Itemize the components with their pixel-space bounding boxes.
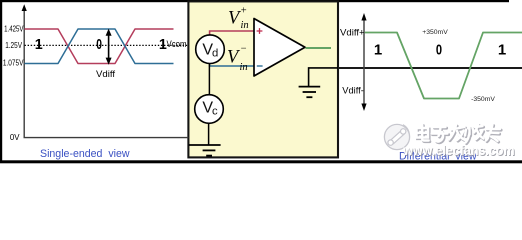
right zero axis line xyxy=(338,67,522,69)
svg-text:in: in xyxy=(240,62,248,73)
frame bottom rule xyxy=(0,160,522,163)
left axis arrowhead xyxy=(22,4,27,11)
blue wire to - input xyxy=(210,63,254,66)
svg-text:-350mV: -350mV xyxy=(471,96,495,103)
green output wire xyxy=(306,47,332,49)
source Vd xyxy=(196,35,225,64)
watermark logo disc xyxy=(384,124,409,149)
svg-text:−: − xyxy=(241,44,247,55)
svg-text:1.25V: 1.25V xyxy=(5,41,22,50)
svg-text:0: 0 xyxy=(96,36,102,52)
source Vc xyxy=(195,95,224,124)
right vertical double arrow axis xyxy=(363,17,365,106)
svg-text:0: 0 xyxy=(436,41,442,58)
svg-text:1: 1 xyxy=(35,37,43,53)
left axis vertical xyxy=(23,10,25,138)
svg-text:in: in xyxy=(241,20,249,31)
frame top border xyxy=(0,0,509,2)
wire Vd to Vc xyxy=(208,63,210,95)
ground at op-amp output reference xyxy=(309,68,339,86)
red wire to + input xyxy=(210,31,254,35)
green differential waveform xyxy=(365,33,522,99)
svg-text:Single-ended view: Single-ended view xyxy=(40,148,130,160)
svg-text:Vdiff+: Vdiff+ xyxy=(340,27,365,38)
svg-text:c: c xyxy=(212,106,218,118)
wire Vc to ground xyxy=(208,123,210,145)
svg-text:www.elecfans.com: www.elecfans.com xyxy=(402,143,514,158)
svg-text:+350mV: +350mV xyxy=(422,29,448,36)
ground under Vc xyxy=(189,144,221,146)
op-amp triangle xyxy=(254,19,305,77)
svg-text:Vcom: Vcom xyxy=(167,39,187,50)
svg-text:1.425V: 1.425V xyxy=(4,24,24,33)
svg-text:1.075V: 1.075V xyxy=(3,59,24,68)
svg-text:+: + xyxy=(241,5,247,16)
svg-text:Vdiff-: Vdiff- xyxy=(342,86,364,96)
left axis horizontal (0V line) xyxy=(24,137,189,139)
svg-text:Vdiff: Vdiff xyxy=(96,69,115,80)
plus input mark xyxy=(257,28,263,34)
dotted Vcom line xyxy=(25,44,188,46)
svg-text:1: 1 xyxy=(498,41,506,58)
svg-text:0V: 0V xyxy=(10,133,20,142)
frame left border xyxy=(0,0,2,163)
amplifier yellow box xyxy=(188,1,338,157)
svg-text:d: d xyxy=(212,47,218,59)
red waveform (starts high) xyxy=(25,29,174,64)
minus input mark xyxy=(257,65,263,67)
blue waveform (starts low) xyxy=(25,29,174,64)
watermark brand characters xyxy=(417,125,502,144)
svg-text:1: 1 xyxy=(374,41,382,58)
Vdiff double arrow xyxy=(108,33,110,61)
